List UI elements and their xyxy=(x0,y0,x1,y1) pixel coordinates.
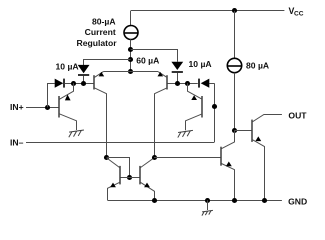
diode D4 series input diode right xyxy=(209,83,214,85)
transistor Q5 collector xyxy=(107,158,120,168)
svg-text:CC: CC xyxy=(294,11,304,18)
current source I2 80uA xyxy=(227,58,241,72)
node feed to left 10uA diode xyxy=(128,57,133,62)
wire feed to left diode D2 xyxy=(84,60,131,66)
transistor Q2 emitter xyxy=(94,72,103,78)
node output base node xyxy=(232,128,237,133)
transistor Q7 base bar xyxy=(220,147,222,166)
node mirror base junction xyxy=(127,175,132,180)
wire output base lead xyxy=(234,130,252,132)
ground bottom rail xyxy=(207,200,209,210)
transistor Q5 base bar xyxy=(119,166,121,185)
transistor Q7 emitter xyxy=(221,164,234,201)
svg-text:10 µA: 10 µA xyxy=(56,61,79,71)
node driver base junction xyxy=(152,155,157,160)
wire IN- riser to right base node xyxy=(214,83,216,142)
node ground symbol junction xyxy=(205,198,210,203)
diode D2 left 10uA clamp xyxy=(78,65,90,73)
node VCC rail junction to 80uA source xyxy=(232,8,237,13)
transistor Q2 collector xyxy=(94,88,107,158)
wire 80uA source to output base node xyxy=(234,73,236,131)
ground left pair xyxy=(69,130,84,132)
wire IN+ riser to diode D1 xyxy=(47,83,49,107)
svg-text:10 µA: 10 µA xyxy=(189,59,212,69)
wire mirror base rail xyxy=(120,177,141,179)
node left base line junction 1 xyxy=(71,81,76,86)
wire D2 cathode to left base line xyxy=(83,76,85,83)
transistor Q4 emitter xyxy=(188,83,203,99)
transistor Q3 collector xyxy=(155,88,168,158)
transistor Q7 collector xyxy=(221,131,234,149)
diode D1 series input diode left xyxy=(47,83,55,85)
transistor Q3 emitter xyxy=(158,72,167,78)
transistor Q6 collector xyxy=(140,158,154,168)
wire mirror diode connection jog xyxy=(107,158,130,178)
wire mirror to driver base xyxy=(154,157,221,159)
svg-text:Regulator: Regulator xyxy=(76,38,117,48)
wire left base line xyxy=(64,83,94,85)
wire VCC rail to current regulator xyxy=(130,11,132,26)
transistor Q8 base bar xyxy=(251,120,253,142)
svg-text:80 µA: 80 µA xyxy=(246,60,269,70)
node mirror left collector junction xyxy=(104,155,109,160)
svg-text:IN+: IN+ xyxy=(10,102,24,112)
transistor Q4 base bar xyxy=(201,96,203,118)
transistor Q5 emitter xyxy=(108,182,120,200)
node Q7 emitter to rail xyxy=(232,198,237,203)
node right base line junction 1 xyxy=(175,81,180,86)
transistor Q3 base bar xyxy=(166,75,168,89)
wire GND rail xyxy=(108,200,282,202)
transistor Q1 emitter xyxy=(59,83,73,99)
ground right pair xyxy=(178,130,193,132)
diode D3 right 10uA clamp xyxy=(171,62,183,70)
wire input pair emitter rail xyxy=(103,71,158,73)
wire VCC rail xyxy=(131,10,285,12)
transistor Q1 base bar xyxy=(58,96,60,118)
node right base line junction 2 xyxy=(185,81,190,86)
node right base node xyxy=(212,104,217,109)
node emitter rail junction xyxy=(128,69,133,74)
wire VCC to 80uA source xyxy=(234,11,236,59)
current source I1 80-uA current regulator xyxy=(124,26,138,40)
svg-text:IN–: IN– xyxy=(10,138,24,148)
node Q6 emitter to rail xyxy=(152,198,157,203)
transistor Q6 base bar xyxy=(139,166,141,185)
wire D3 cathode to right base line xyxy=(177,73,179,84)
transistor Q1 collector xyxy=(59,114,76,130)
node feed to right 10uA diode xyxy=(128,47,133,52)
transistor Q8 collector xyxy=(252,115,282,123)
transistor Q8 emitter xyxy=(252,139,265,200)
transistor Q4 collector xyxy=(186,114,203,131)
wire right base line xyxy=(167,83,197,85)
svg-text:OUT: OUT xyxy=(288,110,307,120)
svg-text:60 µA: 60 µA xyxy=(136,55,159,65)
wire IN- lead xyxy=(26,142,214,144)
svg-text:80-µA: 80-µA xyxy=(92,17,116,27)
transistor Q6 emitter xyxy=(140,182,154,200)
node left base line junction 2 xyxy=(81,81,86,86)
node IN+ junction xyxy=(45,105,50,110)
svg-text:GND: GND xyxy=(288,196,307,206)
wire IN+ lead xyxy=(26,107,59,109)
transistor Q2 base bar xyxy=(93,75,95,89)
wire current regulator output vertical xyxy=(130,39,132,71)
node Q8 emitter to rail xyxy=(262,198,267,203)
wire feed to right diode D3 xyxy=(131,50,178,62)
svg-text:Current: Current xyxy=(85,27,116,37)
